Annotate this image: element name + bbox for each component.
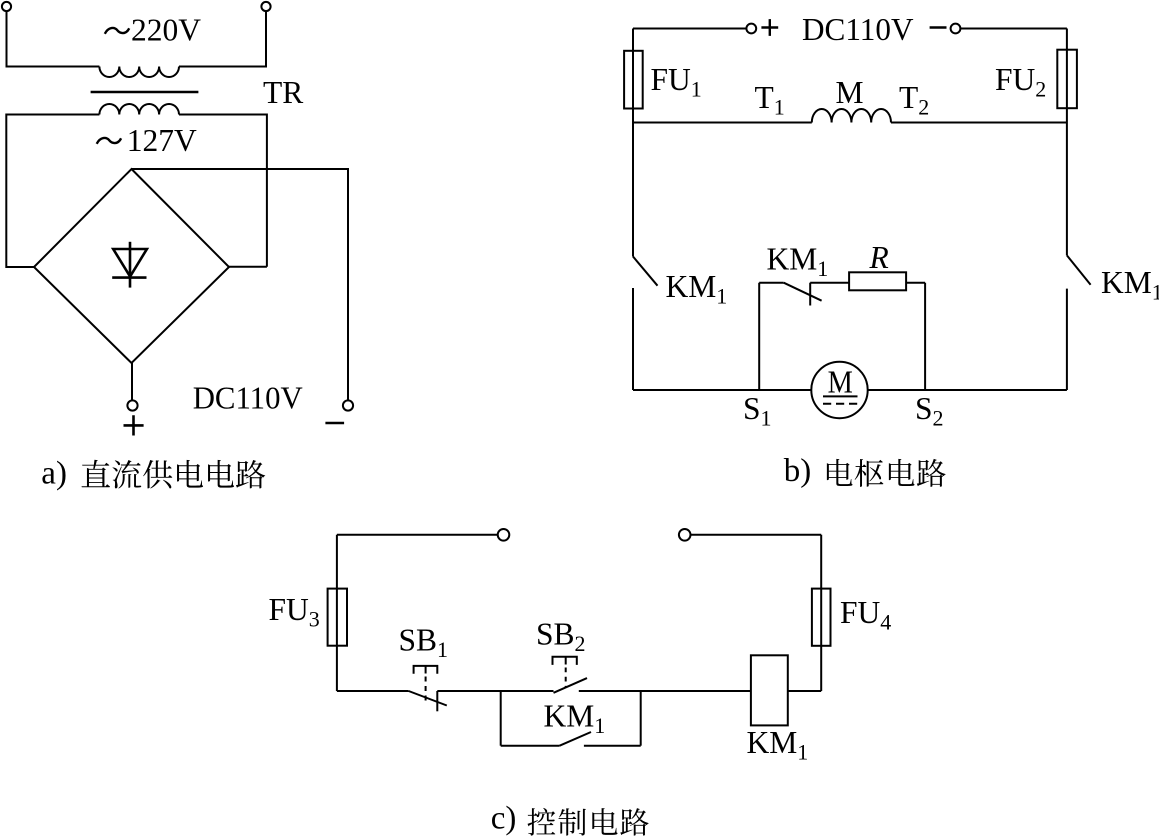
pushbutton SB1 plunger stub [425, 666, 427, 674]
wire: left rail upper (b) [632, 29, 634, 257]
wire: right vertical (c) [820, 535, 822, 691]
transformer TR primary winding [99, 67, 179, 78]
wire: resistor to branch right vertical [906, 282, 925, 284]
transformer TR core [91, 91, 199, 94]
pushbutton SB2 plunger stub [565, 657, 567, 665]
wire: holding branch right vertical [640, 691, 642, 746]
wire: braking branch right vertical S2 [924, 283, 926, 390]
pushbutton SB2 plunger dashed [565, 668, 567, 688]
wire: primary right lead [179, 11, 266, 66]
terminal: DC minus (a) [343, 400, 353, 410]
contact KM1 blade right (b) [1067, 255, 1091, 284]
motor M circle [811, 362, 867, 418]
wire: braking branch left vertical S1 [758, 283, 760, 390]
wire: top right rail (c) [691, 534, 822, 536]
svg-text:c): c) [491, 801, 517, 837]
wire: top left rail (c) [337, 534, 498, 536]
pushbutton SB1 NC blade [409, 691, 447, 706]
terminal: control left [498, 529, 510, 541]
wire: secondary right lead [179, 115, 267, 267]
wire: holding branch left vertical [500, 691, 502, 746]
contact KM1 blade left (b) [633, 257, 658, 286]
wire: right rail upper (b) [1066, 29, 1068, 256]
wire: bridge bottom vertex lead [131, 363, 133, 400]
bridge rectifier diamond [34, 169, 229, 363]
fuse FU3 [328, 589, 347, 646]
svg-text:b): b) [784, 453, 812, 489]
terminal: DC plus (b) [746, 24, 756, 34]
wire: holding branch bottom right [584, 745, 641, 747]
tilde of ~220V [105, 28, 129, 34]
terminal: control right [679, 529, 691, 541]
plus sign (b) [761, 19, 778, 36]
svg-text:220V: 220V [131, 12, 201, 47]
svg-text:TR: TR [263, 75, 303, 110]
plus sign (a) [124, 415, 144, 435]
wire: coil to right vertical [788, 690, 821, 692]
wire: bottom rail to SB1 [337, 690, 409, 692]
minus sign (a) [325, 422, 344, 425]
svg-text:KM1: KM1 [1101, 265, 1159, 305]
wire: right rail lower (b) [1066, 289, 1068, 390]
wire: left rail lower (b) [632, 288, 634, 390]
wire: post to resistor R [810, 282, 849, 284]
pushbutton SB1 cap [414, 666, 438, 674]
wire: secondary left lead [6, 115, 99, 268]
wire: bridge right vertex to secondary [229, 266, 267, 268]
svg-text:M: M [828, 365, 853, 400]
terminal: DC minus (b) [951, 24, 961, 34]
contact KM1 NC terminal post [809, 283, 811, 306]
wire: field winding line T2 side [891, 122, 1067, 124]
wire: bridge top vertex to minus terminal [132, 169, 349, 400]
wire: holding branch bottom left [501, 745, 560, 747]
minus sign (b) [930, 26, 947, 28]
fuse FU4 [812, 589, 831, 646]
wire: SB2 to coil KM1 [579, 690, 751, 692]
terminal: primary left [2, 2, 11, 11]
pushbutton SB1 terminal post [436, 691, 438, 711]
wire: primary left lead [7, 11, 100, 66]
fuse FU1 [624, 51, 643, 109]
wire: field winding line T1 side [633, 122, 812, 124]
transformer TR secondary winding [99, 104, 179, 115]
wire: top rail right (b) [960, 28, 1067, 30]
contact KM1 NC blade (middle b) [784, 283, 822, 301]
svg-text:127V: 127V [127, 123, 197, 158]
svg-text:M: M [836, 75, 864, 110]
diode symbol inside bridge [112, 242, 147, 288]
wire: branch top left segment [759, 282, 784, 284]
field winding M arcs [812, 109, 891, 123]
svg-text:DC110V: DC110V [193, 381, 303, 416]
motor underline [823, 395, 858, 397]
caption b: armature circuit [827, 459, 946, 487]
contact KM1 NO blade (holding) [560, 732, 591, 746]
pushbutton SB2 NO blade [554, 678, 588, 693]
pushbutton SB2 cap [553, 657, 577, 665]
wire: bottom rail right of motor (b) [868, 389, 1067, 391]
caption c: control circuit [528, 808, 649, 836]
resistor R [849, 272, 906, 290]
wire: SB1 to SB2 [437, 690, 553, 692]
wire: top rail left (b) [633, 28, 746, 30]
terminal: DC plus (a) [127, 400, 137, 410]
tilde of ~127V [97, 138, 121, 144]
svg-text:R: R [869, 240, 889, 275]
wire: left vertical (c) [336, 535, 338, 691]
pushbutton SB1 plunger dashed [425, 677, 427, 702]
wire: bottom rail left of motor (b) [633, 389, 811, 391]
fuse FU2 [1057, 50, 1077, 108]
coil KM1 rectangle [751, 655, 788, 725]
svg-text:DC110V: DC110V [802, 12, 914, 47]
terminal: primary right [261, 2, 270, 11]
svg-text:a): a) [41, 456, 67, 492]
caption a: DC supply circuit [82, 460, 266, 489]
motor DC dashes [823, 403, 858, 405]
